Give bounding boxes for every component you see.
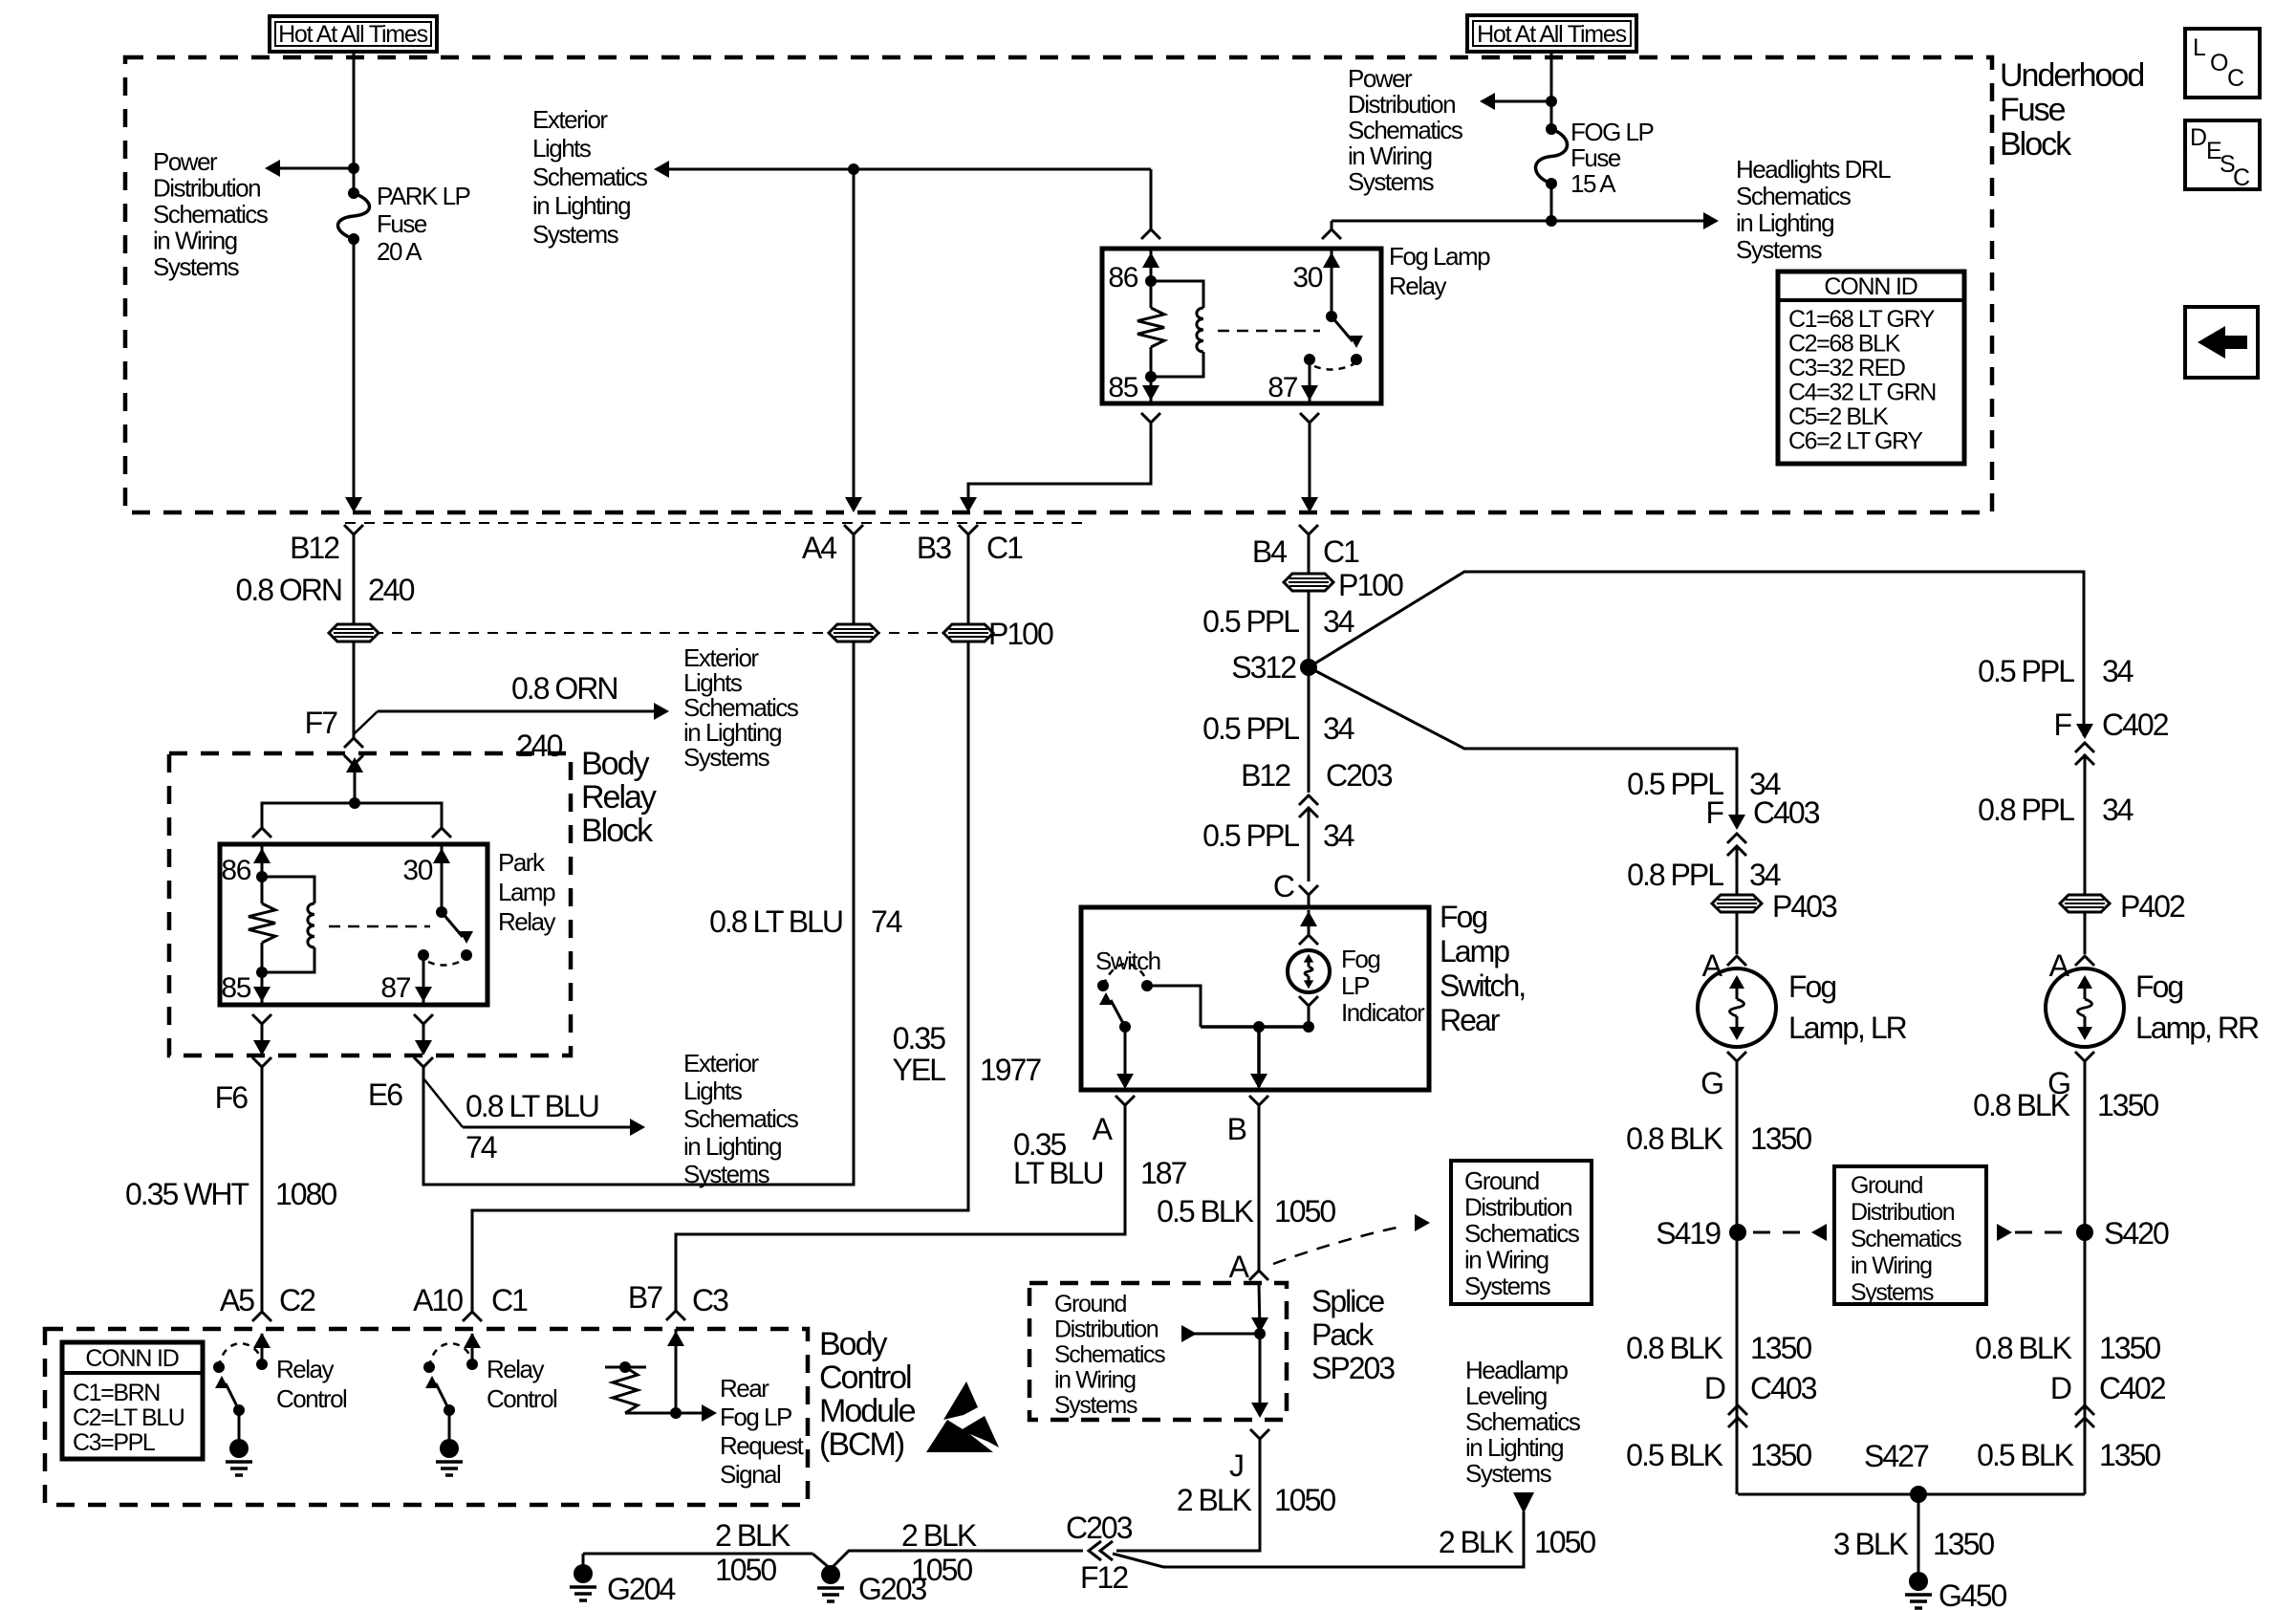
svg-text:Rear: Rear	[1440, 1003, 1501, 1037]
switch S1: fog switch contacts	[1097, 980, 1109, 991]
svg-text:Hot At All Times: Hot At All Times	[1477, 21, 1627, 48]
wire: SP203 bus down to J terminal	[1259, 1334, 1262, 1415]
wire: fog lamp LR ground to S419 (0.8 BLK 1350)	[1736, 1061, 1739, 1494]
svg-text:74: 74	[466, 1130, 497, 1164]
wire: C203 to fog switch pin C	[1308, 808, 1310, 881]
svg-text:Ground: Ground	[1464, 1166, 1539, 1195]
svg-text:Lamp: Lamp	[498, 878, 555, 906]
node: Exterior Lights feed junction	[848, 163, 859, 175]
wire: fuse output to fog lamp relay pin 30	[1332, 220, 1551, 223]
CONN ID table (underhood fuse block)	[1778, 272, 1964, 464]
svg-text:SP203: SP203	[1311, 1351, 1395, 1385]
svg-text:0.8 PPL: 0.8 PPL	[1978, 793, 2074, 827]
svg-text:C3: C3	[692, 1283, 728, 1317]
node F6 terminal	[252, 1057, 271, 1067]
svg-text:B7: B7	[628, 1280, 662, 1315]
svg-text:240: 240	[368, 573, 415, 607]
wire: fog lamp RR ground to S420 (0.8 BLK 1350)	[2084, 1061, 2087, 1494]
ground (switch 1)	[238, 1410, 241, 1443]
svg-text:Schematics: Schematics	[1851, 1226, 1961, 1252]
grommet P402	[2060, 895, 2110, 912]
wire: switch right contact to common	[1147, 986, 1201, 1027]
junction dot: park relay feed split	[349, 797, 360, 809]
wire: B3 to BCM connector A10 (0.35 YEL 1977)	[472, 642, 968, 1312]
svg-text:Fog: Fog	[1788, 969, 1835, 1004]
svg-text:in Lighting: in Lighting	[683, 1132, 781, 1161]
svg-text:0.8 ORN: 0.8 ORN	[236, 573, 341, 607]
power label box: Hot At All Times (right)	[1467, 15, 1636, 52]
svg-text:1050: 1050	[715, 1553, 776, 1587]
wire: switch common link	[1201, 1025, 1309, 1029]
svg-text:30: 30	[1292, 262, 1322, 294]
svg-text:(BCM): (BCM)	[819, 1426, 904, 1463]
svg-text:C1=68 LT GRY: C1=68 LT GRY	[1788, 306, 1936, 333]
wire: resistor to B7 node with request arrow	[625, 1412, 676, 1415]
node B terminal (fog switch)	[1249, 1096, 1268, 1105]
svg-text:85: 85	[1108, 372, 1137, 403]
wire: PARK LP fuse output down to connector B12	[353, 242, 356, 510]
svg-text:F12: F12	[1080, 1560, 1128, 1595]
wire: junction down to connector A4	[853, 169, 856, 510]
grommet P100 on A4 wire	[829, 624, 878, 642]
svg-text:Module: Module	[819, 1393, 916, 1429]
svg-text:Systems: Systems	[1465, 1459, 1552, 1488]
svg-text:CONN ID: CONN ID	[1824, 273, 1917, 300]
svg-text:P403: P403	[1772, 889, 1837, 924]
svg-text:Fuse: Fuse	[2000, 92, 2066, 128]
svg-text:A10: A10	[413, 1283, 463, 1317]
svg-text:C2: C2	[279, 1283, 315, 1317]
svg-text:0.8 PPL: 0.8 PPL	[1627, 858, 1723, 892]
svg-text:Headlamp: Headlamp	[1465, 1356, 1569, 1384]
svg-text:C: C	[2233, 164, 2250, 191]
fuse F1: PARK LP Fuse 20 A	[348, 187, 359, 199]
Underhood Fuse Block dashed boundary	[125, 57, 1992, 512]
svg-text:1350: 1350	[2099, 1331, 2160, 1365]
svg-text:G204: G204	[607, 1572, 675, 1606]
wire: S312 branch to RR fog lamp (upper diagonal)	[1309, 572, 2084, 736]
svg-text:D: D	[1704, 1371, 1725, 1405]
splice S312	[1300, 659, 1317, 676]
svg-text:Schematics: Schematics	[1054, 1341, 1165, 1368]
svg-text:Control: Control	[276, 1384, 347, 1413]
node B3 terminal	[959, 525, 978, 534]
svg-text:C6=2 LT GRY: C6=2 LT GRY	[1788, 428, 1923, 455]
svg-text:0.8 BLK: 0.8 BLK	[1973, 1088, 2070, 1122]
svg-text:Body: Body	[819, 1326, 887, 1362]
relay control switch 1 (BCM output driver)	[256, 1359, 268, 1370]
Ground Distribution Schematics reference box (near SP203)	[1451, 1161, 1592, 1304]
svg-text:0.8 BLK: 0.8 BLK	[1626, 1121, 1723, 1156]
svg-text:20 A: 20 A	[377, 237, 422, 266]
svg-text:Block: Block	[581, 813, 654, 849]
wire: P402 to fog lamp RR pin A	[2084, 912, 2087, 954]
svg-text:Exterior: Exterior	[532, 105, 608, 134]
svg-text:in Lighting: in Lighting	[1465, 1433, 1563, 1462]
dashed reference link to Ground Distribution box	[1273, 1226, 1405, 1264]
svg-text:Schematics: Schematics	[683, 1104, 799, 1133]
svg-text:C1: C1	[986, 531, 1023, 565]
wire: indicator to common node	[1299, 996, 1318, 1006]
node A terminal (fog switch)	[1116, 1096, 1135, 1105]
svg-text:in Lighting: in Lighting	[1736, 208, 1833, 237]
svg-text:2 BLK: 2 BLK	[715, 1518, 791, 1553]
wire: C402 to grommet P402 (0.8 PPL 34)	[2084, 755, 2087, 895]
relay control switch 2 entry arrow	[471, 1334, 474, 1364]
svg-text:in Wiring: in Wiring	[1851, 1252, 1932, 1279]
svg-text:C402: C402	[2099, 1371, 2166, 1405]
svg-text:Schematics: Schematics	[1465, 1407, 1581, 1436]
relay K2: Park Lamp Relay	[252, 828, 271, 838]
svg-text:Schematics: Schematics	[1736, 182, 1852, 210]
svg-text:1050: 1050	[1274, 1483, 1335, 1517]
svg-text:Park: Park	[498, 848, 546, 877]
svg-text:1350: 1350	[2097, 1088, 2158, 1122]
svg-text:C: C	[1273, 869, 1294, 903]
wire: arrow to Power Distribution Schematics (right)	[1489, 100, 1551, 103]
svg-text:1977: 1977	[980, 1053, 1041, 1087]
svg-text:240: 240	[516, 729, 563, 763]
svg-text:Distribution: Distribution	[1464, 1193, 1571, 1222]
svg-text:Control: Control	[487, 1384, 557, 1413]
svg-text:C5=2 BLK: C5=2 BLK	[1788, 403, 1889, 430]
wire pointer slash to 0.8 LT BLU 74 label (E6)	[423, 1078, 463, 1127]
svg-text:Ground: Ground	[1851, 1172, 1922, 1199]
node B4 terminal	[1299, 525, 1318, 534]
svg-text:in Wiring: in Wiring	[153, 227, 237, 255]
wire: P403 to fog lamp LR pin A	[1736, 912, 1739, 954]
Body Relay Block dashed boundary	[169, 753, 571, 1055]
svg-text:Lights: Lights	[532, 134, 592, 163]
svg-text:C203: C203	[1066, 1511, 1133, 1545]
svg-text:Distribution: Distribution	[1348, 90, 1455, 119]
svg-text:Distribution: Distribution	[153, 174, 260, 203]
wire: SP203 internal bus	[1259, 1283, 1260, 1331]
svg-text:C1: C1	[491, 1283, 528, 1317]
svg-text:C3=32 RED: C3=32 RED	[1788, 355, 1905, 381]
wire: J to C203 F12 (2 BLK 1050)	[1116, 1439, 1260, 1551]
splice S427	[1910, 1486, 1927, 1503]
svg-text:2 BLK: 2 BLK	[901, 1518, 977, 1553]
svg-text:L: L	[2193, 34, 2206, 61]
svg-text:LT BLU: LT BLU	[1013, 1156, 1103, 1190]
svg-text:Headlights DRL: Headlights DRL	[1736, 155, 1891, 184]
svg-text:Indicator: Indicator	[1341, 998, 1425, 1027]
svg-text:Fuse: Fuse	[377, 209, 427, 238]
svg-text:P402: P402	[2120, 889, 2185, 924]
wire: C403 to grommet P403 (0.8 PPL 34)	[1736, 846, 1739, 895]
back-arrow reference box	[2185, 307, 2258, 378]
svg-text:2 BLK: 2 BLK	[1177, 1483, 1252, 1517]
svg-text:Systems: Systems	[1348, 167, 1435, 196]
wire: switch pin B exit	[1257, 1027, 1261, 1087]
svg-text:34: 34	[1323, 604, 1354, 639]
grommet P403	[1712, 895, 1762, 912]
wire: arrow to Headlights DRL Schematics	[1551, 220, 1709, 223]
svg-text:Relay: Relay	[487, 1355, 544, 1383]
wire: B7 input with arrow	[675, 1329, 678, 1413]
svg-text:Lamp: Lamp	[1440, 934, 1509, 968]
junction dot SP203 bus	[1254, 1328, 1266, 1339]
svg-text:34: 34	[1749, 858, 1781, 892]
svg-text:E6: E6	[368, 1077, 402, 1112]
svg-text:S419: S419	[1656, 1216, 1721, 1251]
svg-text:in Wiring: in Wiring	[1054, 1367, 1136, 1394]
DESC reference box	[2185, 120, 2260, 189]
svg-text:Switch: Switch	[1095, 946, 1160, 975]
junction dot on FOG LP feed	[1546, 96, 1557, 107]
svg-text:34: 34	[2102, 654, 2134, 688]
power label box: Hot At All Times (left)	[270, 16, 437, 52]
wire: pin C entry arrow into switch	[1308, 910, 1310, 934]
svg-text:in Lighting: in Lighting	[532, 191, 630, 220]
svg-text:Block: Block	[2000, 126, 2072, 163]
svg-text:1050: 1050	[1534, 1525, 1595, 1559]
wire: switch pin A exit	[1124, 1027, 1127, 1087]
svg-text:F6: F6	[215, 1080, 249, 1115]
svg-text:C403: C403	[1753, 795, 1820, 830]
Splice Pack SP203 dashed boundary	[1029, 1283, 1287, 1420]
svg-text:86: 86	[1108, 262, 1137, 294]
svg-text:Lamp, RR: Lamp, RR	[2135, 1011, 2259, 1045]
wire: battery feed to PARK LP fuse (B12 column top)	[353, 52, 356, 190]
svg-text:G: G	[1700, 1066, 1722, 1100]
svg-text:0.8 LT BLU: 0.8 LT BLU	[709, 904, 842, 939]
svg-text:1350: 1350	[2099, 1438, 2160, 1472]
svg-text:Systems: Systems	[532, 220, 619, 249]
wire: S312 down to C203 B12	[1308, 667, 1310, 793]
ground G204	[582, 1554, 585, 1568]
svg-text:LP: LP	[1341, 971, 1369, 1000]
Body Control Module dashed boundary	[45, 1329, 808, 1505]
indicator lamp: Fog LP Indicator	[1288, 950, 1330, 992]
svg-text:C403: C403	[1750, 1371, 1817, 1405]
wire: arrow to Power Distribution Schematics (left)	[274, 167, 354, 170]
svg-text:D: D	[2190, 124, 2206, 151]
dashed reference link S420 to ground distribution box	[2015, 1231, 2071, 1234]
svg-text:Schematics: Schematics	[1348, 116, 1463, 144]
svg-text:1350: 1350	[1750, 1121, 1811, 1156]
wire: battery feed to FOG LP fuse	[1550, 52, 1553, 126]
svg-text:Systems: Systems	[1054, 1392, 1137, 1419]
svg-text:C2=68 BLK: C2=68 BLK	[1788, 331, 1901, 358]
node E6 terminal	[414, 1057, 433, 1067]
svg-text:S427: S427	[1864, 1439, 1929, 1473]
svg-text:B3: B3	[917, 531, 951, 565]
connector C203 / F12 inline (double chevron)	[1089, 1541, 1101, 1560]
ESD symbol	[943, 1382, 978, 1420]
svg-text:PARK LP: PARK LP	[377, 182, 470, 210]
wire: E6 to A4 link (0.8 LT BLU 74)	[423, 642, 854, 1185]
relay K1: Fog Lamp Relay	[1141, 229, 1160, 239]
svg-text:C1: C1	[1323, 534, 1359, 569]
grommet line P100 (thin dashed)	[354, 632, 968, 634]
wire: ground bus (2 BLK 1050)	[583, 1553, 812, 1556]
svg-text:34: 34	[1323, 818, 1354, 853]
svg-text:Fuse: Fuse	[1570, 143, 1621, 172]
svg-text:Systems: Systems	[153, 252, 240, 281]
svg-text:B12: B12	[290, 531, 339, 565]
svg-text:0.5 PPL: 0.5 PPL	[1202, 711, 1299, 746]
grommet P100 on B4 wire	[1308, 534, 1310, 574]
svg-text:J: J	[1229, 1448, 1243, 1483]
svg-text:86: 86	[221, 855, 250, 886]
svg-text:Distribution: Distribution	[1054, 1316, 1159, 1343]
fuse F2: FOG LP Fuse 15 A	[1546, 123, 1557, 135]
ground (switch 2)	[448, 1410, 451, 1443]
svg-text:A: A	[1229, 1250, 1250, 1284]
svg-text:0.5 BLK: 0.5 BLK	[1626, 1438, 1723, 1472]
svg-text:FOG LP: FOG LP	[1570, 118, 1654, 146]
wire: F7 entry into body relay block	[344, 755, 363, 765]
svg-text:C1=BRN: C1=BRN	[73, 1380, 160, 1406]
Ground Distribution Schematics reference box (S419/S420)	[1834, 1166, 1986, 1304]
svg-text:34: 34	[2102, 793, 2134, 827]
svg-text:Schematics: Schematics	[1464, 1219, 1580, 1248]
svg-text:Rear: Rear	[720, 1374, 769, 1403]
svg-text:Fog: Fog	[2135, 969, 2182, 1004]
svg-text:1080: 1080	[275, 1177, 336, 1211]
svg-text:74: 74	[871, 904, 902, 939]
resistor R1: rear fog request pull resistor	[605, 1366, 646, 1369]
svg-text:0.8 BLK: 0.8 BLK	[1975, 1331, 2072, 1365]
svg-text:Fog: Fog	[1341, 945, 1379, 973]
svg-text:0.8 ORN: 0.8 ORN	[511, 671, 617, 706]
svg-text:A: A	[1093, 1112, 1114, 1146]
junction dot: pin B node	[1253, 1021, 1265, 1033]
svg-text:in Wiring: in Wiring	[1348, 141, 1432, 170]
svg-text:Power: Power	[1348, 64, 1413, 93]
wire: fog relay pin 85 to connector B3	[1141, 413, 1160, 423]
svg-text:Fog Lamp: Fog Lamp	[1389, 242, 1490, 271]
svg-text:Fog LP: Fog LP	[720, 1403, 791, 1431]
svg-text:Relay: Relay	[1389, 272, 1446, 300]
LOC reference box	[2185, 29, 2260, 98]
svg-text:Systems: Systems	[1851, 1279, 1934, 1306]
wire: headlamp leveling branch to C203 F12	[1113, 1512, 1524, 1567]
wire: FOG LP fuse output bus	[1550, 186, 1553, 221]
wire: B12 down to grommet P100	[353, 534, 356, 624]
node B12 terminal	[344, 525, 363, 534]
grommet P100 on B3 wire	[943, 624, 993, 642]
svg-text:CONN ID: CONN ID	[85, 1345, 178, 1372]
junction dot: indicator/common	[1303, 1021, 1314, 1033]
svg-text:0.35 WHT: 0.35 WHT	[125, 1177, 249, 1211]
svg-text:P100: P100	[1338, 568, 1403, 602]
svg-text:Relay: Relay	[276, 1355, 334, 1383]
svg-text:Schematics: Schematics	[153, 200, 269, 228]
svg-text:0.8 LT BLU: 0.8 LT BLU	[466, 1089, 598, 1123]
svg-text:Relay: Relay	[581, 779, 657, 816]
svg-text:1350: 1350	[1750, 1331, 1811, 1365]
svg-text:Control: Control	[819, 1360, 911, 1396]
fog lamp switch box	[1081, 907, 1429, 1090]
svg-text:Systems: Systems	[1736, 235, 1823, 264]
switch lever with arrow	[1111, 1000, 1125, 1027]
svg-text:Schematics: Schematics	[532, 163, 648, 191]
svg-text:1350: 1350	[1750, 1438, 1811, 1472]
svg-text:Switch,: Switch,	[1440, 968, 1525, 1003]
splice S419	[1729, 1224, 1746, 1241]
grommet P100 on B12 wire	[329, 624, 379, 642]
svg-text:Body: Body	[581, 746, 649, 782]
svg-text:3 BLK: 3 BLK	[1833, 1527, 1909, 1561]
svg-text:F: F	[2053, 707, 2071, 742]
svg-text:Distribution: Distribution	[1851, 1199, 1955, 1226]
svg-text:YEL: YEL	[893, 1053, 946, 1087]
svg-text:87: 87	[380, 972, 410, 1004]
svg-text:Underhood: Underhood	[2000, 57, 2143, 94]
svg-text:F7: F7	[305, 706, 338, 740]
svg-text:C4=32 LT GRN: C4=32 LT GRN	[1788, 380, 1936, 406]
junction dot on PARK LP feed	[348, 163, 359, 174]
svg-text:in Wiring: in Wiring	[1464, 1246, 1549, 1274]
svg-text:15 A: 15 A	[1570, 169, 1616, 198]
wire: fog relay pin 87 to connector B4	[1300, 413, 1319, 423]
svg-text:Lights: Lights	[683, 1077, 743, 1105]
svg-text:0.8 BLK: 0.8 BLK	[1626, 1331, 1723, 1365]
svg-text:O: O	[2210, 50, 2228, 76]
wire: S312 branch to LR fog lamp (lower diagonal)	[1309, 667, 1737, 827]
svg-text:0.5 BLK: 0.5 BLK	[1977, 1438, 2074, 1472]
svg-text:0.5 PPL: 0.5 PPL	[1978, 654, 2074, 688]
wire: arrow to Exterior Lights Schematics (0.8 LT BLU 74)	[463, 1126, 636, 1129]
wire: P100 to splice S312	[1308, 591, 1310, 667]
svg-text:Leveling: Leveling	[1465, 1382, 1547, 1410]
svg-text:Power: Power	[153, 147, 218, 176]
svg-text:0.35: 0.35	[893, 1021, 945, 1055]
svg-text:C2=LT BLU: C2=LT BLU	[73, 1404, 184, 1431]
arrow from ground distribution text to bus	[1191, 1333, 1260, 1336]
svg-text:C203: C203	[1326, 758, 1393, 793]
svg-text:85: 85	[221, 972, 250, 1004]
svg-text:C3=PPL: C3=PPL	[73, 1429, 156, 1456]
svg-text:C402: C402	[2102, 707, 2169, 742]
wire pointer slash to 0.8 ORN 240 label	[354, 711, 378, 734]
connector face line C1 (thin dashed)	[345, 522, 1090, 524]
svg-text:B: B	[1227, 1112, 1246, 1146]
svg-text:Systems: Systems	[1464, 1272, 1551, 1300]
ground G203 dip	[812, 1551, 1083, 1569]
svg-text:G450: G450	[1939, 1578, 2006, 1610]
svg-text:P100: P100	[988, 617, 1053, 651]
ground G450	[1909, 1572, 1928, 1591]
svg-text:2 BLK: 2 BLK	[1439, 1525, 1514, 1559]
wire: arrow to Exterior Lights Schematics (0.8 ORN 240)	[378, 710, 660, 713]
svg-text:D: D	[2050, 1371, 2071, 1405]
wire: feed split to park relay pins 86 and 30	[262, 803, 442, 828]
svg-text:1050: 1050	[911, 1553, 972, 1587]
relay control switch 2 (BCM output driver)	[466, 1359, 478, 1370]
svg-text:187: 187	[1140, 1156, 1187, 1190]
wire: B12 grommet down to F7	[353, 642, 356, 738]
svg-text:Relay: Relay	[498, 907, 555, 936]
svg-text:B12: B12	[1241, 758, 1290, 793]
svg-text:0.5 PPL: 0.5 PPL	[1202, 818, 1299, 853]
CONN ID table (BCM)	[62, 1342, 203, 1459]
wire: arrow to Exterior Lights Schematics (top)	[663, 168, 854, 171]
svg-text:C: C	[2227, 65, 2244, 92]
svg-text:0.5 BLK: 0.5 BLK	[1157, 1194, 1254, 1229]
dashed reference link S419 to ground distribution box	[1753, 1231, 1809, 1234]
wire: ground bus LR-RR	[1738, 1493, 2085, 1496]
wire: park relay pin 87 to E6	[414, 1014, 433, 1024]
wire: switch pin A to BCM B7 (0.35 LT BLU 187)	[676, 1105, 1125, 1312]
svg-text:30: 30	[402, 855, 432, 886]
svg-text:S312: S312	[1231, 650, 1296, 685]
svg-text:Signal: Signal	[720, 1460, 781, 1489]
svg-text:Exterior: Exterior	[683, 1049, 759, 1077]
